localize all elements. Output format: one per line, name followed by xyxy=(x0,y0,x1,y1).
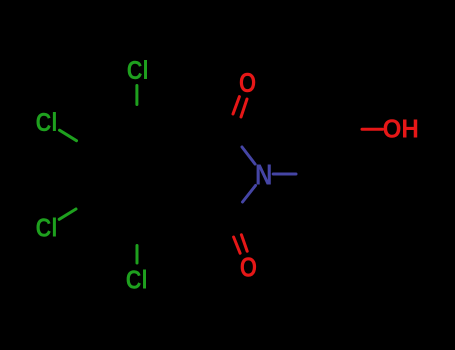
svg-text:Cl: Cl xyxy=(36,107,58,137)
bond C7-Cl (bottom chlorine) xyxy=(136,246,139,264)
bond C5-Cl (upper-left chlorine) xyxy=(60,130,77,141)
svg-text:Cl: Cl xyxy=(126,264,148,294)
bond C3-N (lower blue half-bond) xyxy=(243,186,256,203)
svg-text:N: N xyxy=(255,160,272,192)
double bond C3=O (bottom carbonyl) line 2 xyxy=(241,235,247,251)
bond CH2-OH (red half-bond to hydroxyl) xyxy=(362,128,383,131)
svg-text:Cl: Cl xyxy=(36,213,58,243)
bond C4-Cl (top chlorine) xyxy=(135,86,138,105)
double bond C1=O (top carbonyl) line 1 xyxy=(233,97,239,114)
svg-text:O: O xyxy=(239,67,256,98)
double bond C3=O (bottom carbonyl) line 1 xyxy=(234,237,241,253)
svg-text:O: O xyxy=(240,251,257,282)
bond N-CH2 (horizontal blue half-bond) xyxy=(273,173,296,176)
svg-text:Cl: Cl xyxy=(127,55,149,85)
svg-text:OH: OH xyxy=(383,116,419,144)
double bond C1=O (top carbonyl) line 2 xyxy=(241,99,247,117)
bond C6-Cl (lower-left chlorine) xyxy=(59,209,76,219)
bond C1-N (upper blue half-bond) xyxy=(242,147,255,164)
